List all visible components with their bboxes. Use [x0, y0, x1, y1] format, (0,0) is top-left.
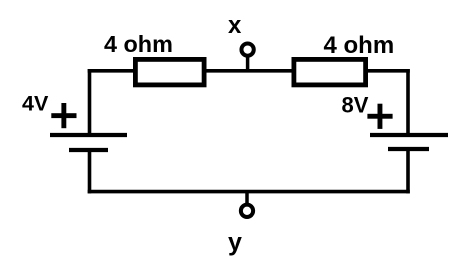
svg-text:4 ohm: 4 ohm — [324, 32, 395, 59]
wire left vertical upper — [88, 69, 92, 135]
resistor R1 — [135, 59, 204, 85]
svg-text:4V: 4V — [22, 92, 49, 116]
svg-text:4 ohm: 4 ohm — [104, 31, 173, 57]
svg-text:x: x — [228, 12, 242, 39]
polarity plus V1 — [51, 103, 76, 128]
node y terminal — [241, 191, 253, 217]
wire left vertical lower — [88, 150, 92, 193]
resistor R2 — [294, 59, 366, 85]
wire top-right segment — [366, 69, 410, 73]
wire right vertical upper — [406, 69, 410, 135]
wire bottom segment — [88, 190, 410, 194]
node x terminal — [241, 43, 253, 71]
wire top-middle segment — [203, 69, 294, 73]
svg-text:8V: 8V — [342, 92, 369, 117]
wire right vertical lower — [406, 149, 410, 193]
battery V1 4V — [50, 135, 127, 150]
polarity plus V2 — [367, 104, 392, 129]
svg-text:y: y — [228, 229, 242, 257]
wire top-left segment — [88, 69, 140, 73]
battery V2 8V — [370, 135, 448, 149]
